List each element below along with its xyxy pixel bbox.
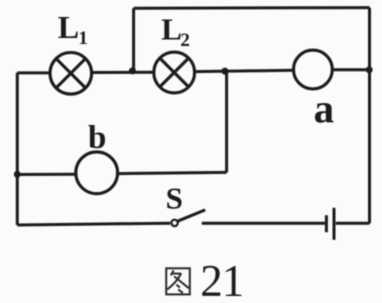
meter b — [76, 152, 118, 194]
wire meter b to riser corner — [118, 172, 227, 173]
wire bottom-left to switch — [17, 223, 170, 225]
svg-text:S: S — [166, 181, 183, 216]
wire left vertical — [16, 73, 19, 225]
meter a — [294, 50, 333, 89]
wire switch to battery — [202, 222, 325, 225]
svg-text:L: L — [58, 9, 79, 45]
lamp L1 — [50, 53, 92, 95]
svg-text:1: 1 — [78, 28, 88, 49]
wire L1 to L2 — [92, 71, 154, 74]
node N junction dot — [221, 68, 228, 75]
wire node P to meter b — [17, 173, 76, 176]
svg-text:2: 2 — [180, 30, 190, 51]
svg-text:2: 2 — [200, 256, 223, 303]
battery negative plate (short) — [325, 215, 328, 232]
wire L2 to meter a — [195, 70, 294, 71]
wire riser from b branch up to node N — [225, 71, 228, 172]
wire top-left to lamp L1 — [17, 71, 50, 74]
switch S pivot — [171, 220, 177, 226]
svg-text:a: a — [314, 85, 335, 131]
node R junction dot — [366, 66, 373, 73]
wire right vertical — [368, 8, 371, 224]
lamp L2 — [154, 52, 195, 93]
svg-text:L: L — [161, 11, 182, 46]
caption character 图 — [166, 268, 190, 294]
svg-text:b: b — [88, 120, 106, 156]
svg-text:1: 1 — [222, 256, 245, 303]
switch S lever — [178, 210, 206, 221]
wire from node M up to top rail — [132, 8, 135, 70]
node M junction dot — [129, 67, 136, 74]
wire meter a to node R — [332, 68, 369, 71]
node P junction dot — [14, 171, 21, 178]
wire battery to bottom-right corner — [336, 222, 370, 225]
battery positive plate (long) — [333, 208, 336, 240]
wire top rail — [134, 6, 370, 10]
